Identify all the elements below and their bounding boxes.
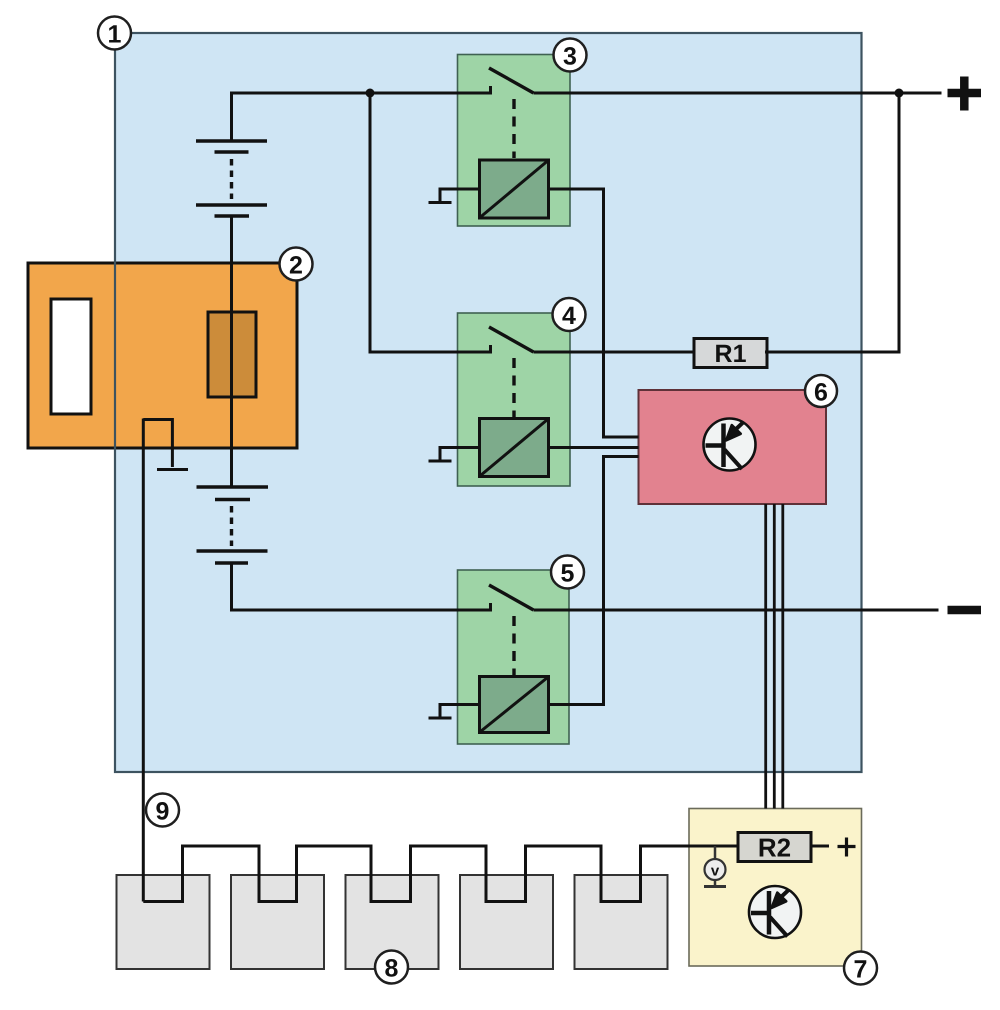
lower cell stack plate 1 (long) bbox=[197, 485, 269, 489]
contactor 5 ground bar bbox=[429, 717, 452, 720]
junction node at plus terminal branch bbox=[895, 89, 904, 98]
battery disconnect unit box 2 (orange) bbox=[28, 263, 297, 448]
upper cell stack plate 4 (short) bbox=[215, 214, 250, 218]
voltmeter ground bar bbox=[704, 885, 726, 888]
svg-text:2: 2 bbox=[289, 252, 303, 280]
contactor 5 fixed contact tick bbox=[489, 603, 492, 612]
contactor 4 coil ground wire bbox=[440, 448, 480, 461]
contactor 4 ground bar bbox=[429, 460, 452, 463]
wire: contactor 3 coil to control unit 6 bbox=[549, 189, 639, 437]
battery module 8e (gray) bbox=[575, 875, 668, 969]
upper cell stack plate 1 (long) bbox=[196, 139, 267, 143]
lower cell stack plate 3 (long) bbox=[197, 549, 268, 553]
contactor 3 coil ground wire bbox=[440, 189, 480, 202]
svg-text:9: 9 bbox=[156, 798, 170, 826]
wire: positive bus from contactor 3 to plus terminal bbox=[534, 92, 942, 95]
svg-text:4: 4 bbox=[562, 302, 576, 330]
control unit box 6 (red) bbox=[639, 390, 827, 504]
svg-text:5: 5 bbox=[561, 560, 575, 588]
contactor 3 ground bar bbox=[429, 201, 452, 204]
label circle 5 bbox=[551, 556, 584, 589]
junction node at upper bus and precharge branch bbox=[366, 89, 375, 98]
fuse element in box 2 bbox=[208, 312, 256, 397]
battery module 8b (gray) bbox=[231, 875, 324, 969]
label circle 4 bbox=[553, 298, 586, 331]
contactor box 3 (green) bbox=[458, 55, 571, 227]
upper cell stack dashed series link bbox=[230, 159, 233, 199]
svg-text:1: 1 bbox=[108, 21, 122, 49]
minus terminal symbol bbox=[948, 606, 982, 615]
contactor box 5 (green) bbox=[458, 570, 570, 744]
wire: R2 to small plus bbox=[811, 845, 829, 848]
label circle 2 bbox=[280, 248, 313, 281]
wire: positive bus from upper cell stack to contactor 3 contact bbox=[232, 93, 491, 141]
contactor box 4 (green) bbox=[458, 313, 571, 486]
lower cell stack dashed series link bbox=[230, 506, 233, 546]
contactor 4 fixed contact tick bbox=[489, 345, 492, 354]
wire: negative bus from lower cell stack to contactor 5 contact bbox=[232, 563, 491, 610]
wire: negative bus from contactor 5 to minus terminal bbox=[534, 609, 939, 612]
upper cell stack plate 2 (short) bbox=[215, 150, 249, 154]
svg-text:6: 6 bbox=[814, 379, 828, 407]
service plug ground bar bbox=[157, 468, 188, 471]
wire: precharge branch down to contactor 4 contact bbox=[370, 93, 491, 352]
contactor 3 coil bbox=[480, 160, 549, 218]
lower cell stack plate 4 (short) bbox=[215, 561, 248, 565]
contactor 4 actuator dashed link bbox=[512, 358, 515, 417]
resistor R1 bbox=[694, 339, 767, 369]
contactor 3 actuator dashed link bbox=[512, 99, 515, 158]
contactor 5 coil ground wire bbox=[440, 705, 480, 718]
control bus triple wires from box 6 to box 7 bbox=[766, 504, 783, 809]
small plus symbol in box 7 bbox=[838, 838, 856, 857]
contactor 5 actuator dashed link bbox=[512, 616, 515, 675]
svg-text:R1: R1 bbox=[715, 340, 747, 368]
lower cell stack plate 2 (short) bbox=[215, 498, 250, 502]
voltmeter V in box 7 bbox=[705, 859, 726, 880]
service plug connector tab in box 2 bbox=[143, 418, 172, 467]
battery pack enclosure box 1 border bbox=[115, 33, 862, 772]
battery module 8c (gray) bbox=[346, 875, 439, 969]
contactor 4 coil bbox=[480, 419, 549, 477]
voltmeter ground stem bbox=[714, 880, 717, 886]
battery module 8d (gray) bbox=[460, 875, 553, 969]
contactor 3 switch blade bbox=[489, 68, 534, 93]
svg-text:3: 3 bbox=[563, 43, 577, 71]
svg-text:R2: R2 bbox=[758, 832, 791, 862]
voltmeter stem wire bbox=[714, 846, 717, 859]
wire: contactor 4 coil to control unit 6 bbox=[549, 446, 639, 449]
wire: upper cell stack through fuse in box 2 to lower cell stack bbox=[230, 216, 233, 487]
wire: resistor R1 to plus terminal junction bbox=[765, 93, 899, 352]
resistor R2 in box 7 bbox=[738, 832, 811, 862]
label circle 1 bbox=[98, 17, 131, 50]
contactor 5 switch blade bbox=[489, 585, 534, 610]
white slot (service plug handle) in box 2 bbox=[51, 299, 91, 414]
contactor 5 coil bbox=[480, 677, 549, 733]
contactor 3 fixed contact tick bbox=[489, 86, 492, 95]
label circle 9 bbox=[146, 794, 179, 827]
wire 9: sense lead from box 2 down to module 8a bbox=[142, 419, 145, 902]
svg-text:8: 8 bbox=[385, 955, 399, 983]
svg-text:v: v bbox=[711, 862, 720, 879]
wire: contactor 4 output to resistor R1 bbox=[534, 351, 695, 354]
transistor symbol U2 in monitoring unit 7 bbox=[749, 886, 801, 938]
transistor symbol U1 in control unit 6 bbox=[704, 419, 756, 471]
svg-text:7: 7 bbox=[854, 956, 868, 984]
wire: module interconnect serpentine from module 8a to R2 bbox=[143, 846, 738, 902]
label circle 7 bbox=[844, 952, 877, 985]
label circle 3 bbox=[554, 39, 587, 72]
upper cell stack plate 3 (long) bbox=[196, 203, 267, 207]
wire: control unit 6 to contactor 5 coil bbox=[549, 457, 639, 705]
plus terminal symbol bbox=[948, 77, 982, 111]
monitoring unit box 7 (yellow) bbox=[689, 809, 862, 967]
battery module 8a (gray) bbox=[117, 875, 210, 969]
contactor 4 switch blade bbox=[489, 327, 534, 352]
battery pack enclosure box 1 (blue) fill bbox=[115, 33, 862, 772]
label circle 6 bbox=[805, 375, 837, 407]
label circle 8 bbox=[375, 951, 408, 984]
